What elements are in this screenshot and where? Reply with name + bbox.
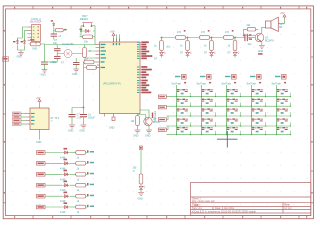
key column 5 header label: [275, 76, 280, 77]
cursor crosshair: [217, 131, 238, 148]
resistor R19 right mark: [87, 194, 89, 196]
MCU U1 left pin names: [101, 44, 107, 68]
key switch SW15 cell: [176, 127, 191, 135]
ground Q2: [146, 130, 152, 133]
svg-text:Sw Push: Sw Push: [272, 82, 282, 85]
MCU U1 bottom pins: [105, 114, 114, 117]
resistor R18: [76, 183, 86, 187]
wire IC2 labels to pins: [21, 114, 27, 125]
svg-text:Rev:: Rev:: [285, 203, 291, 207]
capacitor C4 osc: [73, 63, 80, 65]
key switch SW45 cell: [251, 127, 266, 135]
capacitor C7: [80, 115, 87, 117]
wire resistor pair rail: [84, 62, 97, 108]
wire switch ring: [81, 26, 95, 45]
svg-text:Title:: Title:: [192, 203, 200, 207]
IC2 U2 pin names: [31, 113, 35, 125]
wire Q2 emitter: [148, 125, 150, 129]
resistor R7 chain: [176, 36, 186, 40]
capacitor C5 ref: [249, 34, 252, 36]
key switch SW33 cell: [226, 108, 241, 116]
wire row 6 bottom left: [45, 206, 62, 208]
transistor Q1 red ref: [258, 53, 263, 55]
resistor R19: [76, 194, 86, 198]
wire C7 to gnd: [83, 117, 85, 125]
ground below diodes: [18, 51, 24, 56]
svg-text:KiCad E.D.A. eeschema (2010-0: KiCad E.D.A. eeschema (2010-05-05 BZR 23…: [192, 209, 256, 213]
transistor Q2 below MCU: [144, 117, 152, 125]
svg-text:+5V: +5V: [110, 31, 115, 34]
junction chain 2: [187, 37, 189, 39]
ground C7: [81, 125, 87, 128]
wire cap to transistor base: [247, 37, 255, 39]
key column 3 header label: [225, 76, 230, 77]
svg-text:GND: GND: [68, 130, 74, 133]
wire osc to MCU pins: [85, 45, 96, 59]
connector J1 pin numbers: [38, 26, 39, 37]
connector J1 bottom pin: [35, 42, 37, 45]
diode D16 aux ref: [51, 20, 53, 21]
svg-text:4k7: 4k7: [84, 59, 89, 62]
svg-text:8R: 8R: [279, 26, 282, 29]
resistor R5 horizontal pair: [87, 66, 97, 70]
MCU U1 right pins: [140, 42, 141, 92]
global label row 6 bottom: [37, 205, 46, 209]
diode D1 vertical: [16, 39, 19, 45]
LED D15 below R21: [139, 186, 145, 190]
speaker LS1: [266, 17, 279, 31]
key switch SW55 cell: [276, 127, 291, 135]
svg-text:GND: GND: [109, 127, 115, 130]
MCU U1 right pin numbers: [137, 42, 139, 93]
svg-text:GND: GND: [138, 198, 144, 201]
svg-text:GND: GND: [258, 50, 264, 53]
reset switch SW1: [82, 23, 92, 27]
key switch SW21 cell: [201, 89, 216, 97]
ground below D15: [138, 193, 144, 196]
svg-text:GND: GND: [32, 48, 38, 51]
svg-text:4148: 4148: [60, 211, 66, 214]
ground below C1: [42, 68, 48, 73]
capacitor C8 aux: [51, 34, 57, 36]
wire emitter: [261, 41, 262, 45]
resistor R13 drop4: [233, 41, 237, 51]
IC2 U2 left labels: [13, 112, 22, 126]
diode D8: [62, 151, 69, 154]
frame ticks sides: [3, 57, 313, 203]
svg-text:BC547: BC547: [153, 121, 161, 124]
svg-text:BC547A: BC547A: [265, 40, 274, 43]
+5V symbol above MCU: [112, 33, 115, 38]
svg-text:+5V: +5V: [36, 97, 41, 100]
wire row 3 bottom right stub: [86, 173, 89, 175]
wire C4 to ground: [75, 58, 77, 68]
crystal X1: [64, 50, 72, 58]
wire diodes to ground: [18, 45, 25, 51]
resistor R1 below connector: [30, 42, 40, 46]
junction reset: [80, 30, 82, 32]
key column 2 header label: [200, 76, 205, 77]
frame ticks top: [33, 6, 299, 9]
wire row 5 bottom mid: [70, 195, 76, 197]
key switch SW14 cell: [176, 118, 191, 126]
wire row 2 bottom left: [45, 162, 62, 164]
capacitor C6: [69, 115, 76, 117]
keyboard side red mark: [152, 113, 153, 119]
diode D11 ref: [64, 181, 68, 183]
capacitor C2 crystal: [54, 49, 61, 51]
title block texts: [192, 197, 292, 214]
key switch SW24 cell: [201, 118, 216, 126]
key column 3 header ref: [232, 76, 235, 78]
matrix row wire 2: [167, 105, 291, 107]
key switch SW51 cell: [276, 89, 291, 97]
MCU U1 top pin numbers: [113, 43, 120, 45]
left border power label text: [4, 58, 8, 60]
junction chain 1: [161, 37, 163, 39]
MCU U1 right pin labels: [141, 41, 152, 93]
IC2 U2 top pin: [39, 105, 41, 109]
wire row 1 bottom left: [45, 152, 62, 154]
resistor R8 chain: [200, 36, 210, 40]
wire row 3 bottom mid: [70, 173, 76, 175]
wire row 1 bottom right stub: [86, 152, 89, 154]
capacitor C5 value: [249, 38, 252, 39]
svg-text:(PIC16F87X-P): (PIC16F87X-P): [103, 82, 121, 86]
resistor R15: [76, 151, 86, 155]
node label top of R21: [139, 146, 142, 150]
ground R14: [135, 130, 141, 133]
MCU U1 left pins: [96, 45, 100, 68]
key column 2 wire: [201, 85, 203, 135]
wire reset to MCU: [94, 44, 97, 46]
resistor R3 osc: [83, 48, 87, 58]
wire row 5 bottom left: [45, 195, 62, 197]
key switch SW32 cell: [226, 99, 241, 107]
wire row 4 bottom left: [45, 184, 62, 186]
wire row 4 bottom right stub: [86, 184, 89, 186]
resistor R4 horizontal pair: [84, 60, 94, 64]
wire row 2 bottom right stub: [86, 162, 89, 164]
wire R21 bottom: [140, 184, 142, 186]
key switch SW34 cell: [226, 118, 241, 126]
resistor R12 drop3: [210, 41, 214, 51]
MCU bottom pin gnd mark: [112, 117, 115, 121]
svg-text:(En: (En: [167, 46, 171, 49]
diode D11: [62, 184, 69, 187]
wire LED chain main: [162, 37, 245, 39]
key switch SW13 cell: [176, 108, 191, 116]
resistor R11 drop2: [186, 41, 190, 51]
key column 3 wire: [226, 85, 228, 135]
resistor R16 right mark: [87, 161, 89, 163]
node label ref R21: [140, 147, 142, 149]
resistor R20 right mark: [87, 205, 89, 207]
junction chain 4: [234, 37, 236, 39]
left border power label: [3, 57, 9, 61]
key column 1 wire: [176, 85, 178, 135]
global label row 5 bottom: [37, 194, 46, 198]
wire C6 to gnd: [71, 117, 73, 125]
resistor R23 aux label: [64, 29, 66, 30]
global label row 3 bottom: [37, 173, 46, 177]
wire speaker to collector: [262, 27, 266, 33]
resistor R21: [139, 174, 143, 184]
junction caps rail: [83, 107, 85, 109]
svg-text:GND: GND: [41, 74, 47, 77]
svg-text:Crystal 4M: Crystal 4M: [62, 43, 73, 46]
frame ticks bottom: [33, 216, 299, 219]
wire C1 to ground: [44, 64, 46, 68]
diode D12 ref: [64, 192, 68, 194]
diode D13: [62, 205, 69, 208]
wire row 5 bottom right stub: [86, 195, 89, 197]
wire connector to diodes: [18, 27, 28, 42]
wire R1 to cap: [29, 44, 45, 62]
MCU U1 body: [100, 42, 141, 114]
key switch SW22 cell: [201, 99, 216, 107]
svg-text:470: 470: [225, 31, 230, 34]
svg-text:+5V: +5V: [280, 12, 285, 15]
wire row 6 bottom right stub: [86, 206, 89, 208]
diode D13 ref: [64, 202, 68, 204]
svg-text:GND: GND: [145, 135, 151, 138]
wire R22 to base: [244, 29, 259, 35]
key switch SW43 cell: [251, 108, 266, 116]
matrix row wire 3: [167, 115, 291, 117]
svg-text:470: 470: [177, 31, 182, 34]
resistor R14 below MCU: [136, 116, 140, 126]
resistor R9 chain: [224, 36, 234, 40]
capacitor C1 below connector: [41, 62, 48, 64]
frame row letters left: [4, 30, 5, 194]
resistor R1 label: [30, 39, 35, 40]
title block: [191, 183, 311, 216]
key column 4 wire: [251, 85, 253, 135]
svg-text:GND: GND: [36, 141, 42, 144]
capacitor C5 chain: [245, 34, 247, 41]
wire drop3: [211, 38, 213, 58]
global label ROW1: [158, 95, 166, 98]
wire drop2: [187, 38, 189, 58]
key switch SW12 cell: [176, 99, 191, 107]
ground C6: [69, 125, 75, 128]
junction chain 3: [211, 37, 213, 39]
resistor R22 base: [247, 28, 256, 31]
global label row 4 bottom: [37, 183, 46, 187]
svg-text:GND: GND: [133, 135, 139, 138]
diode D1 D2 ref texts: [13, 41, 15, 42]
resistor R17: [76, 173, 86, 177]
IC2 U2 body: [30, 108, 49, 130]
matrix row wire 4: [167, 125, 291, 127]
wire connector to MCU left pins: [45, 44, 85, 46]
resistor R23 aux: [55, 29, 63, 32]
wire C8 aux down: [53, 36, 55, 39]
svg-text:GND: GND: [80, 130, 86, 133]
resistor R17 right mark: [87, 172, 89, 174]
key switch SW41 cell: [251, 89, 266, 97]
key switch SW52 cell: [276, 99, 291, 107]
global label row 1 bottom: [37, 151, 46, 155]
wire crystal to resistor: [57, 53, 84, 55]
svg-text:1M: 1M: [88, 50, 91, 53]
key switch SW35 cell: [226, 127, 241, 135]
connector J1 pins: [28, 27, 32, 40]
svg-text:470: 470: [201, 31, 206, 34]
key column 1 header label: [175, 76, 180, 77]
wire caps rail: [45, 45, 58, 63]
diode D9: [62, 162, 69, 165]
svg-text:Id: 1/1: Id: 1/1: [285, 206, 293, 210]
key switch SW11 cell: [176, 89, 191, 97]
connector J1 body: [32, 25, 41, 42]
resistor R2 reset: [83, 35, 93, 39]
wire R14: [137, 114, 139, 130]
+5V symbol speaker: [283, 15, 286, 20]
key column 1 header ref: [182, 76, 185, 78]
key column 2 header ref: [207, 76, 210, 78]
wire row 2 bottom mid: [70, 162, 76, 164]
global label ROW3: [158, 116, 168, 121]
key column 5 header ref: [282, 76, 285, 78]
wire drop4: [234, 38, 236, 58]
matrix row wire 5: [167, 134, 291, 136]
svg-text:GND: GND: [17, 56, 23, 59]
wire aux chain: [54, 27, 65, 33]
frame column numbers bottom: [14, 216, 307, 218]
wire row 6 bottom mid: [70, 206, 76, 208]
frame row letters right: [311, 30, 312, 194]
wire +5V to speaker: [266, 20, 285, 23]
MCU U1 top pins: [114, 39, 120, 43]
wire caps top rail: [72, 108, 84, 114]
svg-text:100uF: 100uF: [88, 117, 95, 120]
IC2 U2 bottom pin: [39, 130, 41, 133]
junction base wire: [243, 35, 244, 36]
wire drop1: [161, 38, 163, 58]
svg-text:Sw Push: Sw Push: [247, 82, 257, 85]
key switch SW44 cell: [251, 118, 266, 126]
wire row 4 bottom mid: [70, 184, 76, 186]
connector J1 pin names: [33, 27, 35, 41]
svg-text:10u: 10u: [248, 43, 253, 46]
frame column numbers top: [14, 7, 307, 9]
LED D6: [210, 52, 216, 56]
svg-text:GND: GND: [72, 73, 78, 76]
diode D16 aux: [53, 22, 55, 27]
wire reset left rail: [80, 31, 84, 37]
svg-text:Sw Push: Sw Push: [197, 82, 207, 85]
wire +5V to MCU top pins: [114, 35, 120, 43]
global label row 2 bottom: [37, 162, 46, 166]
diode D3 reset: [83, 29, 90, 32]
global label ROW4: [158, 126, 168, 131]
wire row 1 bottom mid: [70, 152, 76, 154]
key column 4 header label: [250, 76, 255, 77]
svg-text:Sw Push: Sw Push: [172, 82, 182, 85]
key switch SW23 cell: [201, 108, 216, 116]
diode D12: [62, 195, 69, 198]
+5V symbol IC2: [38, 99, 41, 104]
key switch SW31 cell: [226, 89, 241, 97]
key column 5 wire: [276, 85, 278, 135]
svg-text:Sw Push: Sw Push: [222, 82, 232, 85]
wire MCU to Q2: [138, 110, 150, 119]
key switch SW53 cell: [276, 108, 291, 116]
matrix row wire 1: [167, 96, 291, 98]
resistor R18 right mark: [87, 183, 89, 185]
key switch SW42 cell: [251, 99, 266, 107]
svg-text:SIL-8 DCF: SIL-8 DCF: [30, 21, 42, 24]
key switch SW54 cell: [276, 118, 291, 126]
diode D2 vertical: [23, 39, 26, 45]
resistor R16: [76, 162, 86, 166]
diode D10: [62, 173, 69, 176]
diode D3 ref: [80, 29, 83, 30]
svg-text:RESET: RESET: [80, 18, 89, 21]
diode D8 ref: [64, 148, 68, 150]
wire D15 to gnd: [140, 190, 142, 192]
LED D4: [160, 52, 166, 56]
diode D9 ref: [64, 159, 68, 161]
IC2 U2 left pins: [26, 114, 30, 125]
wire IC2 bottom to gnd: [39, 133, 41, 140]
ground below C4: [73, 68, 79, 73]
resistor R10 drop1: [160, 41, 164, 51]
capacitor C3 crystal: [54, 56, 61, 58]
wire R21 top: [140, 150, 142, 174]
key column 4 header ref: [257, 76, 260, 78]
transistor Q1: [255, 33, 264, 42]
global label ROW2: [158, 106, 166, 109]
resistor R15 right mark: [87, 150, 89, 152]
LED D5: [186, 52, 192, 56]
key switch SW25 cell: [201, 127, 216, 135]
LED D7: [233, 52, 239, 56]
resistor R20: [76, 205, 86, 209]
diode D10 ref: [64, 170, 68, 172]
ground emitter: [259, 46, 265, 49]
wire row 3 bottom left: [45, 173, 62, 175]
